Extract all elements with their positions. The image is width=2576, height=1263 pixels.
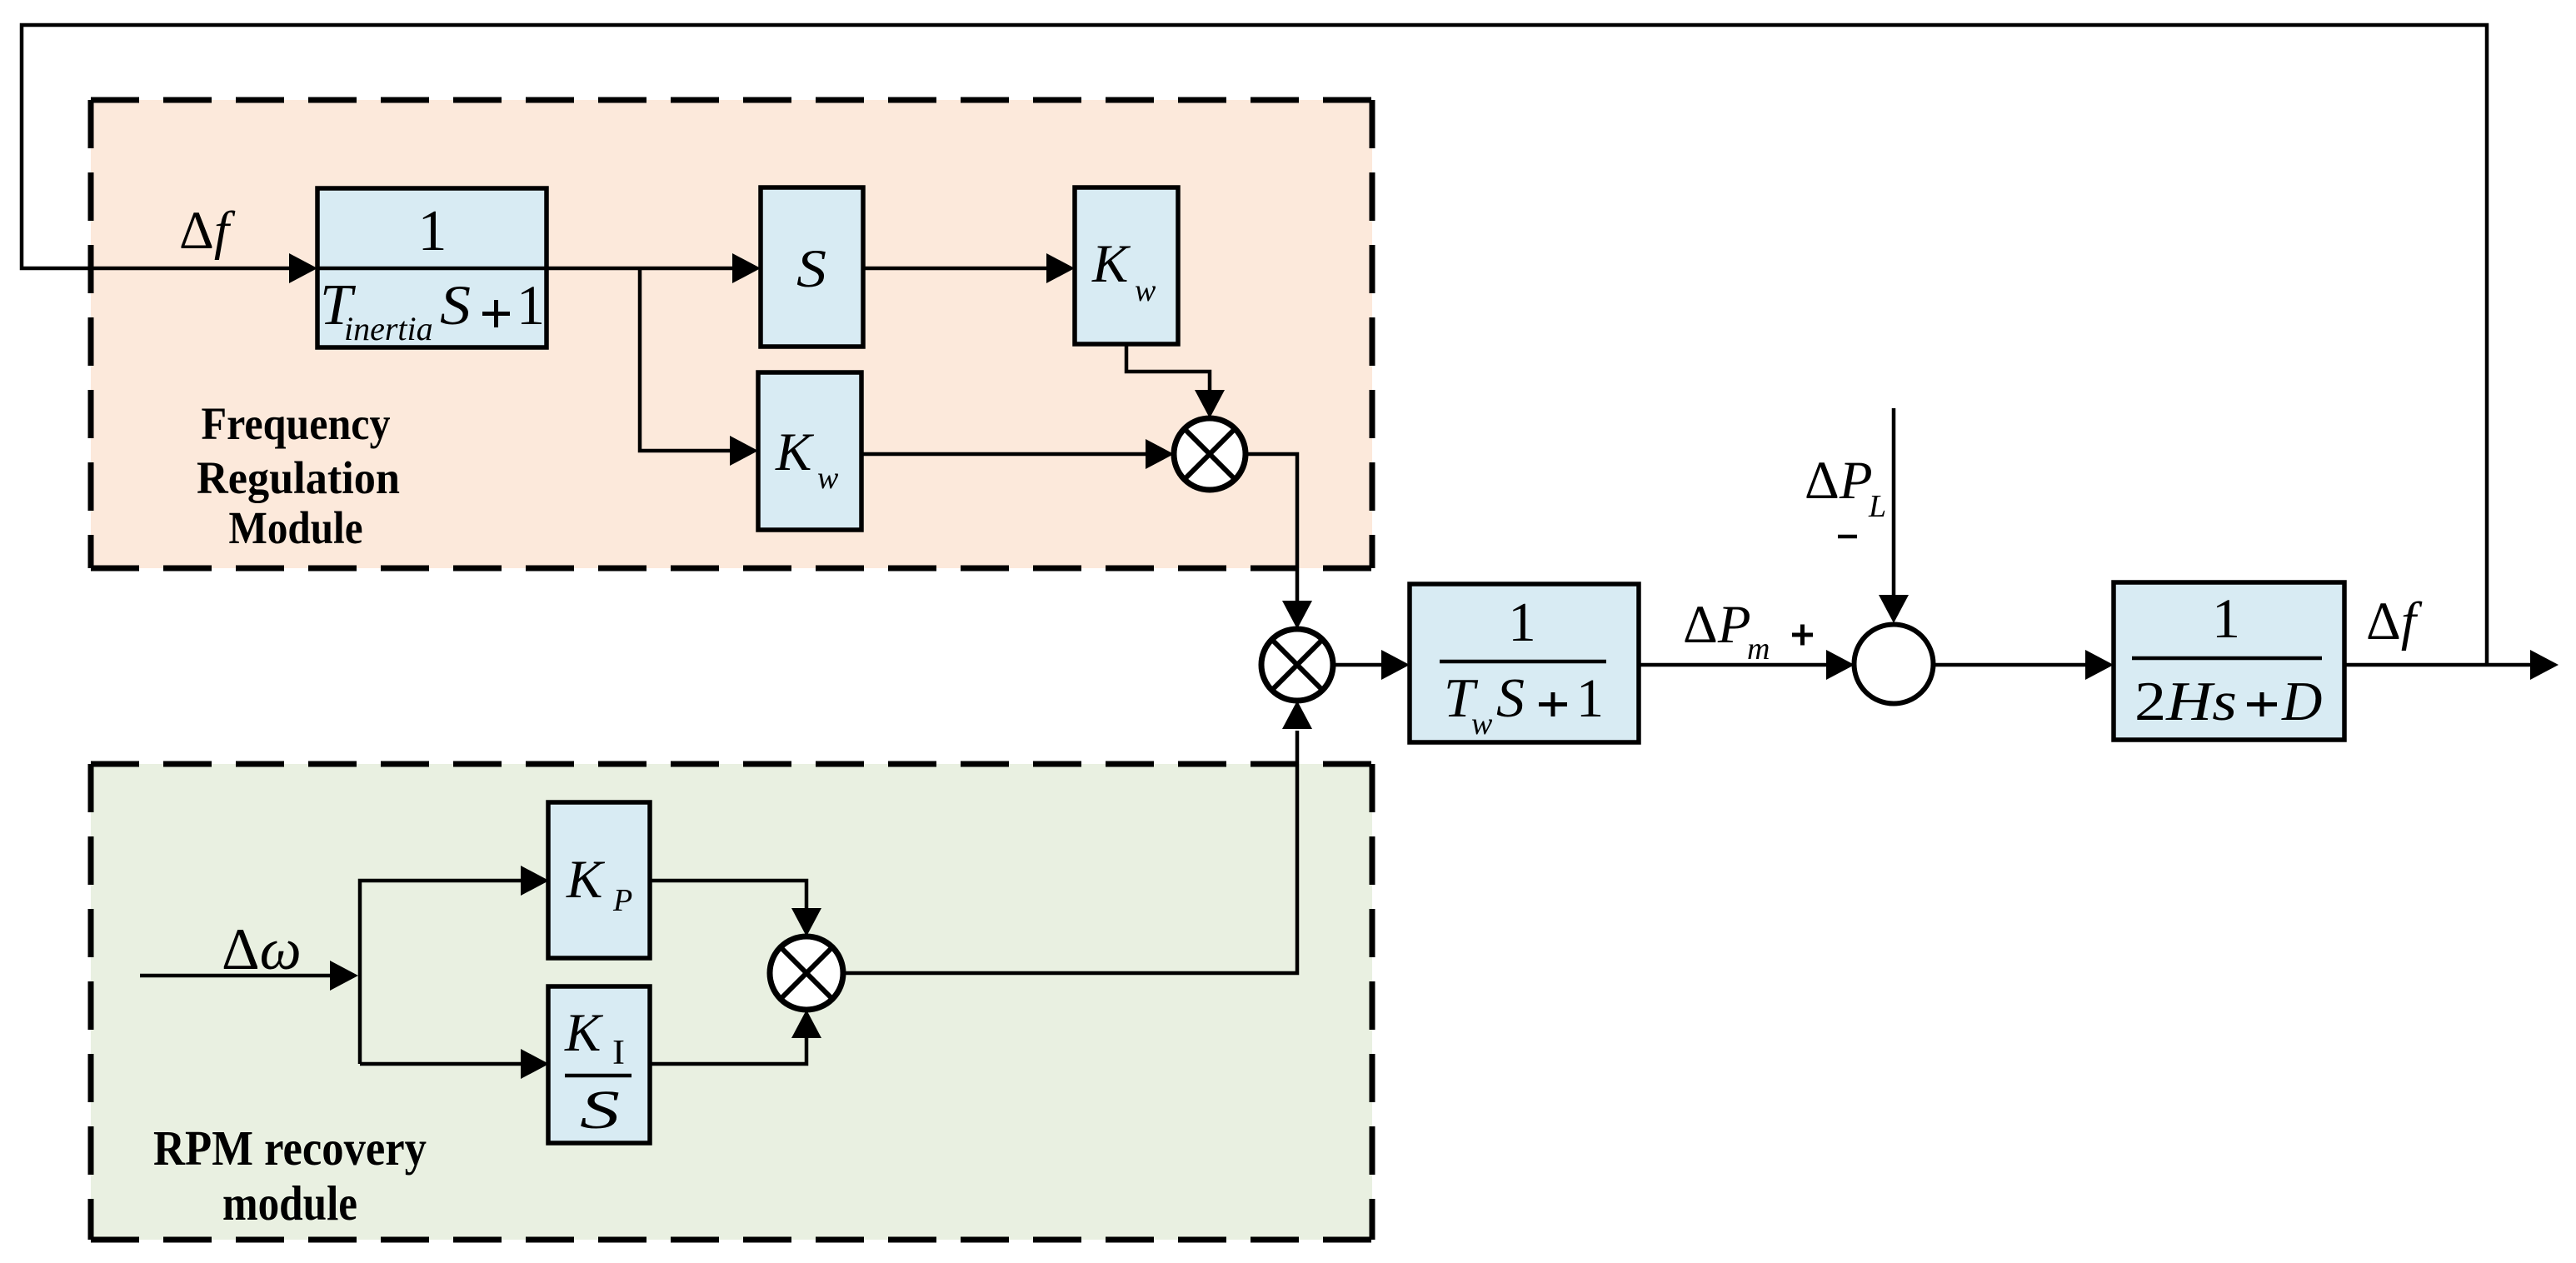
svg-text:Regulation: Regulation	[197, 452, 400, 503]
node ΔPL input	[1892, 408, 1896, 597]
svg-text:S: S	[1496, 667, 1525, 729]
svg-text:m: m	[1747, 631, 1770, 666]
svg-text:Δω: Δω	[222, 917, 302, 982]
block S	[761, 187, 863, 347]
svg-text:K: K	[566, 850, 606, 910]
svg-text:1: 1	[1576, 668, 1604, 729]
block 1/(T_inertia S+1)	[317, 188, 547, 347]
svg-text:RPM recovery: RPM recovery	[153, 1121, 427, 1176]
minus sign	[1838, 535, 1857, 539]
wire branch down to lower Kw	[640, 268, 733, 451]
svg-text:2Hs: 2Hs	[2134, 671, 2237, 732]
svg-text:K: K	[1091, 234, 1131, 294]
block 1/(Tw S+1)	[1410, 584, 1639, 742]
wire branch to KP and KI	[360, 881, 522, 1064]
multiplier M3 (circle with X)	[770, 936, 843, 1010]
svg-text:K: K	[775, 422, 815, 482]
multiplier M1 (circle with X)	[1174, 418, 1246, 490]
svg-text:module: module	[222, 1176, 357, 1231]
svg-text:S: S	[440, 273, 471, 337]
svg-text:K: K	[564, 1003, 604, 1063]
wire Tw to summing junction, node ΔPm	[1639, 663, 1828, 667]
wire sum to 2Hs+D block	[1934, 663, 2087, 667]
multiplier M2 (main, circle with X)	[1261, 629, 1333, 701]
wire Kw bottom to multiplier M1	[861, 452, 1147, 457]
wire green input Δω	[140, 974, 332, 978]
wire M3 to M2	[843, 731, 1297, 973]
svg-text:Δf: Δf	[179, 201, 236, 261]
Frequency Regulation Module dashed box	[91, 100, 1372, 568]
svg-text:Module: Module	[229, 502, 363, 553]
svg-text:ΔP: ΔP	[1683, 595, 1751, 655]
svg-text:w: w	[1471, 706, 1493, 741]
svg-text:S: S	[796, 239, 826, 299]
plus sign	[1792, 633, 1813, 637]
block Kw (top)	[1075, 187, 1178, 344]
svg-text:P: P	[612, 883, 632, 918]
svg-text:1: 1	[418, 199, 447, 263]
block Kw (bottom)	[758, 372, 861, 530]
RPM recovery module dashed box	[91, 764, 1372, 1240]
svg-text:1: 1	[1508, 592, 1536, 653]
block KI/S	[548, 986, 650, 1143]
svg-text:w: w	[817, 461, 839, 496]
wire feedback loop from output to Δf input	[22, 25, 2487, 665]
wire M1 to M2	[1246, 454, 1297, 602]
svg-text:ΔP: ΔP	[1805, 451, 1873, 511]
svg-text:Frequency: Frequency	[202, 398, 391, 449]
svg-text:S: S	[580, 1080, 620, 1141]
svg-text:inertia: inertia	[344, 310, 433, 347]
svg-text:1: 1	[2212, 587, 2240, 650]
wire S to Kw	[863, 267, 1048, 271]
wire Kw top down to multiplier M1	[1126, 344, 1210, 392]
wire KI to multiplier M3	[650, 1036, 806, 1064]
wire KP to multiplier M3	[650, 881, 806, 910]
summing junction circle	[1855, 625, 1934, 704]
wire output Δf	[2344, 663, 2532, 667]
svg-text:1: 1	[517, 273, 545, 337]
svg-text:D: D	[2281, 671, 2322, 732]
block KP	[548, 802, 650, 958]
block 1/(2Hs+D)	[2114, 582, 2344, 740]
svg-text:L: L	[1868, 489, 1886, 524]
svg-text:w: w	[1135, 273, 1156, 308]
svg-text:Δf: Δf	[2366, 592, 2423, 651]
svg-text:I: I	[612, 1034, 625, 1072]
wire M2 to Tw block	[1333, 663, 1383, 667]
wire block1 to S	[547, 267, 734, 271]
